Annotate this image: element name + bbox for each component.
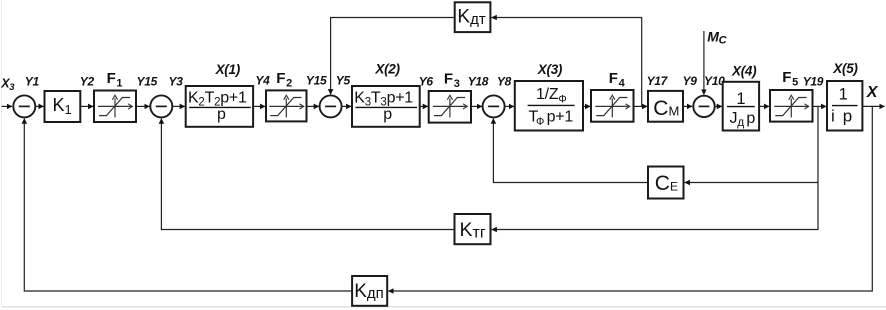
wire X1 to F2 (253, 105, 265, 107)
svg-text:4: 4 (619, 78, 626, 90)
svg-text:Kдп: Kдп (354, 281, 384, 302)
wire X3 to F4 (583, 105, 590, 107)
svg-text:Y15: Y15 (137, 74, 158, 88)
wire CE output to S4 (493, 119, 648, 183)
wire S5 to X4 (715, 105, 722, 107)
block X5 transfer function (827, 81, 862, 131)
block K1 (45, 91, 81, 122)
svg-text:1: 1 (116, 77, 122, 89)
svg-text:Y15: Y15 (306, 74, 327, 88)
block KTG (455, 214, 491, 244)
svg-text:1: 1 (839, 86, 848, 104)
wire S1 to K1 (35, 105, 43, 107)
svg-text:X(3): X(3) (537, 62, 563, 77)
svg-text:p: p (383, 106, 392, 123)
svg-text:X: X (866, 84, 879, 101)
svg-text:X(1): X(1) (215, 62, 241, 77)
block F3 (saturation) (429, 91, 471, 123)
svg-text:3: 3 (454, 78, 460, 90)
svg-text:1: 1 (736, 90, 745, 108)
svg-text:F: F (276, 70, 285, 87)
svg-text:Y18: Y18 (468, 74, 489, 88)
wire S3 to X2 (342, 105, 352, 107)
summing junction S1 (13, 95, 35, 117)
svg-text:TФp+1: TФp+1 (529, 109, 574, 129)
svg-text:Y19: Y19 (803, 75, 824, 89)
block CM (648, 91, 683, 122)
block X4 transfer function (723, 82, 759, 131)
faint page border bottom (2, 306, 886, 308)
svg-text:Y5: Y5 (336, 74, 351, 88)
block F1 (saturation) (94, 91, 136, 123)
node tap to KDT feedback (492, 18, 642, 107)
wire CM to S5 (683, 105, 692, 107)
svg-text:Y2: Y2 (80, 75, 95, 89)
svg-text:Y8: Y8 (497, 74, 512, 88)
wire Mc input down to S5 (703, 31, 705, 95)
wire K1 to F1 (80, 105, 93, 107)
summing junction S4 (483, 95, 505, 117)
wire KDP output to S1 (24, 119, 352, 291)
block CE (648, 167, 684, 199)
summing junction S2 (150, 95, 172, 117)
wire branch to CE (685, 182, 818, 184)
svg-text:5: 5 (792, 77, 798, 89)
svg-text:Y3: Y3 (169, 75, 184, 89)
node tap to CE / KTG feedback (492, 106, 818, 229)
wire F3 to S4 (471, 105, 482, 107)
summing junction S5 (693, 96, 714, 117)
block X2 transfer function (352, 86, 420, 127)
svg-text:X(2): X(2) (374, 62, 400, 77)
wire S4 to X3 (505, 105, 514, 107)
svg-text:p: p (217, 106, 226, 123)
block KDP (352, 276, 387, 306)
svg-text:Y9: Y9 (683, 74, 698, 88)
summing junction S3 (320, 95, 342, 117)
svg-text:Y1: Y1 (25, 75, 40, 89)
block KDT (455, 2, 491, 32)
wire F2 to S3 (307, 105, 319, 107)
wire KTG output to S2 (161, 119, 454, 230)
node tap to KDP feedback (388, 106, 872, 291)
wire F5 to X5 (813, 105, 827, 107)
wire KDT output to S3 (331, 18, 455, 95)
svg-text:F: F (782, 69, 791, 86)
wire X2 to F3 (420, 105, 428, 107)
block F5 (saturation) (770, 90, 813, 122)
wire X5 to output (862, 105, 884, 107)
svg-text:Y17: Y17 (647, 74, 669, 88)
wire input X3 to S1 (2, 105, 13, 107)
wire X4 to F5 (759, 105, 769, 107)
block X3 transfer function (515, 81, 583, 131)
svg-text:X(5): X(5) (832, 61, 858, 76)
wire F4 to CM (634, 105, 648, 107)
svg-text:Y4: Y4 (255, 73, 270, 87)
faint page border left (1, 0, 3, 307)
block F2 (saturation) (266, 90, 307, 121)
svg-text:Y6: Y6 (419, 75, 434, 89)
block X1 transfer function (186, 86, 253, 127)
block F4 (saturation) (591, 90, 634, 122)
svg-text:F: F (609, 70, 618, 87)
wire F1 to S2 (136, 105, 150, 107)
svg-text:F: F (444, 70, 453, 87)
wire S2 to X1 (172, 105, 185, 107)
svg-text:2: 2 (286, 78, 292, 90)
svg-text:F: F (107, 70, 116, 87)
svg-text:X(4): X(4) (731, 63, 757, 78)
